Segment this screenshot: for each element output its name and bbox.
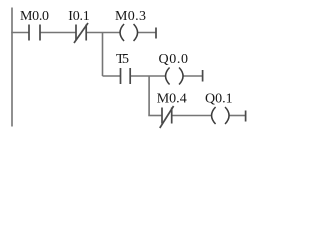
svg-text:T5: T5 — [116, 52, 129, 67]
svg-text:Q0.1: Q0.1 — [205, 92, 233, 107]
svg-text:M0.4: M0.4 — [157, 92, 187, 107]
svg-text:Q0.0: Q0.0 — [159, 52, 189, 67]
svg-text:M0.3: M0.3 — [115, 9, 146, 24]
svg-text:I0.1: I0.1 — [68, 9, 90, 24]
svg-text:M0.0: M0.0 — [20, 9, 49, 24]
